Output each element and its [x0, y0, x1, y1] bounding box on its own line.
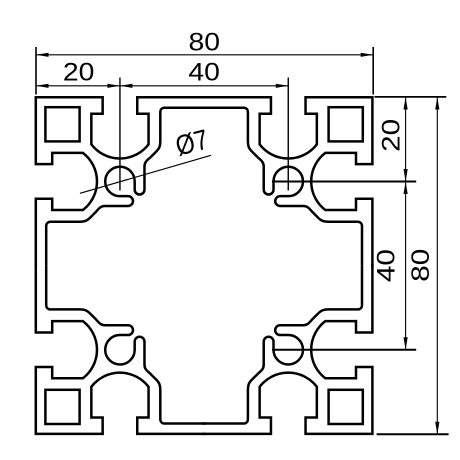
arrow 80-right up	[435, 97, 439, 110]
arrow 80-top right	[361, 53, 374, 57]
outer contour with two T-slots (top-left quarter)	[36, 97, 206, 267]
arrow 20-top left	[36, 84, 49, 88]
arrow 80-top left	[36, 53, 49, 57]
svg-text:80: 80	[407, 249, 435, 282]
arrow 40-top left	[120, 84, 133, 88]
centerline right top hole (vertical)	[287, 78, 289, 191]
centerline bottom-right hole (horizontal) / extension	[272, 349, 416, 351]
arrow 20-right down	[404, 169, 408, 182]
extension line top edge right	[375, 96, 447, 98]
corner chamber (square hole)	[45, 107, 79, 141]
svg-text:40: 40	[373, 249, 401, 282]
centerline left hole (vertical)	[119, 78, 121, 191]
dimensions	[36, 47, 449, 434]
centerline top-right hole (horizontal) / extension for right dims	[272, 180, 416, 182]
arrow 20-right up	[404, 97, 408, 110]
dimension line 80 top	[36, 54, 373, 56]
arrow 40-right down	[404, 337, 408, 350]
svg-text:80: 80	[189, 28, 221, 56]
arrow 80-right down	[435, 422, 439, 435]
svg-text:20: 20	[377, 119, 405, 152]
dimension texts	[63, 28, 435, 282]
svg-text:20: 20	[63, 59, 95, 87]
bottom-left quarter (mirrored)	[36, 264, 206, 434]
arrowheads	[36, 53, 439, 435]
extension line bottom edge right	[377, 433, 449, 435]
svg-text:40: 40	[188, 59, 220, 87]
arrow 20-top right	[107, 84, 120, 88]
central cavity wall incl. screw-channel claws and 270-deg hole arc	[46, 108, 206, 266]
arrow 40-top right	[276, 84, 289, 88]
dimension line 80 right	[436, 97, 438, 434]
bottom-right quarter (mirrored)	[202, 264, 372, 434]
extension line left corner	[35, 47, 37, 95]
arrow 40-right up	[404, 181, 408, 194]
dimension line 20/40 top	[36, 85, 288, 87]
profile cross-section (80x80 aluminium extrusion), built from one quarter mirrored 4x	[36, 97, 373, 434]
dimension line 20/40 right	[405, 97, 407, 350]
top-right quarter (mirrored)	[202, 97, 372, 267]
extension line right corner	[372, 47, 374, 95]
leader line for hole diameter	[80, 155, 211, 193]
